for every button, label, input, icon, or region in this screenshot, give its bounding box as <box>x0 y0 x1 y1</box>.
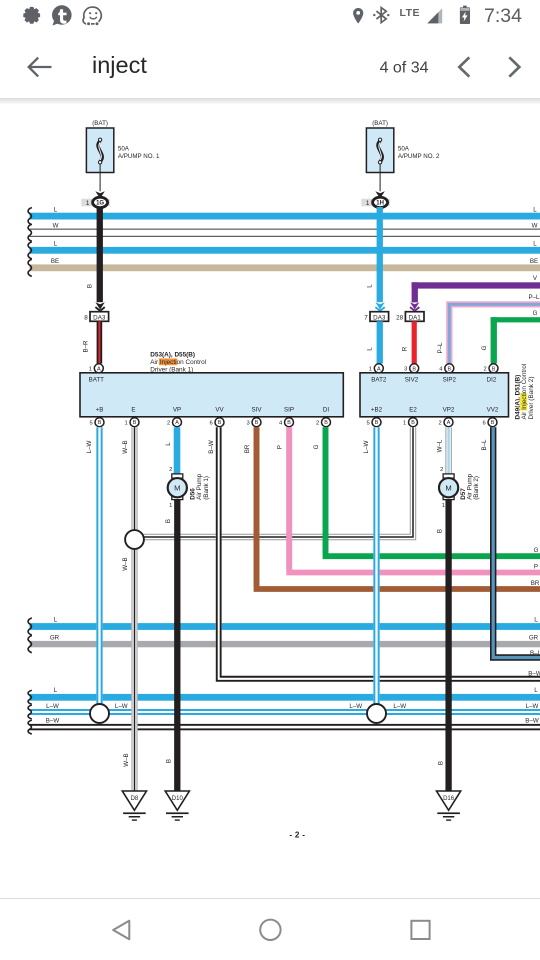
svg-text:G: G <box>533 310 538 317</box>
wire V horizontal <box>412 282 540 288</box>
svg-text:BAT2: BAT2 <box>371 376 387 383</box>
svg-text:L: L <box>534 617 538 624</box>
svg-text:L–W: L–W <box>46 703 59 710</box>
svg-text:B: B <box>491 420 495 426</box>
svg-text:B–L: B–L <box>481 439 488 451</box>
pin 6 B VV2 <box>488 418 497 427</box>
ground D16 <box>437 791 461 810</box>
signal triangle icon <box>427 8 442 23</box>
svg-text:B–W: B–W <box>528 671 540 678</box>
LTE label <box>400 7 421 19</box>
bus wire W <box>30 229 540 230</box>
svg-text:L: L <box>165 442 172 446</box>
wire L-W from +B2 to junction <box>373 427 379 707</box>
svg-text:B–L: B–L <box>530 650 540 657</box>
wire W-B from E2 elbow to junction <box>134 427 413 537</box>
svg-text:D8: D8 <box>131 796 139 802</box>
svg-text:G: G <box>481 345 488 350</box>
svg-text:L: L <box>367 347 374 351</box>
svg-text:W: W <box>53 223 59 230</box>
connector 1G pin 1 <box>81 199 110 207</box>
svg-text:B: B <box>218 420 222 426</box>
wire B-L elbow from VV2 to right <box>493 427 540 657</box>
brace bus B-W <box>28 720 32 734</box>
wire P vertical from SIP <box>286 427 292 569</box>
svg-text:- 2 -: - 2 - <box>289 830 305 839</box>
svg-text:1: 1 <box>369 366 372 372</box>
svg-text:A/PUMP NO. 1: A/PUMP NO. 1 <box>118 153 160 160</box>
nav recents square <box>411 921 429 939</box>
nav bar separator <box>0 898 540 899</box>
svg-text:A: A <box>97 366 101 372</box>
toolbar shadow <box>0 98 540 105</box>
connector DA3 pin 7 <box>370 312 389 322</box>
clock 7:34 <box>484 5 522 27</box>
svg-text:L: L <box>534 687 538 694</box>
bluetooth icon <box>373 8 389 23</box>
wire R from DA1 to SIV2 <box>412 321 417 363</box>
wire L from DA3-7 to BAT2 pin <box>377 321 383 363</box>
svg-text:V: V <box>533 275 538 282</box>
pin 2 B DI <box>322 418 331 427</box>
svg-text:W: W <box>532 223 538 230</box>
svg-text:P: P <box>534 563 538 570</box>
svg-text:BE: BE <box>530 258 538 265</box>
svg-text:D53(A), D55(B): D53(A), D55(B) <box>150 352 195 359</box>
svg-text:M: M <box>174 484 180 493</box>
svg-text:B: B <box>98 420 102 426</box>
svg-text:B: B <box>438 761 445 765</box>
pin 1 A BATT <box>94 364 103 373</box>
wire G from right to DI2 <box>491 317 540 322</box>
wire BR elbow from SIV to right <box>257 427 540 589</box>
gear notification icon <box>23 7 40 24</box>
svg-text:A: A <box>377 366 381 372</box>
svg-text:VP: VP <box>173 407 181 414</box>
svg-text:B–W: B–W <box>525 718 539 725</box>
svg-text:B: B <box>411 420 415 426</box>
svg-text:3: 3 <box>246 420 249 426</box>
svg-text:2: 2 <box>483 366 486 372</box>
brace bus GR <box>28 636 32 653</box>
junction node L-W left <box>90 704 109 723</box>
svg-text:D16: D16 <box>443 796 455 802</box>
svg-text:1: 1 <box>442 503 445 509</box>
wire L-W from +B to junction <box>96 427 102 707</box>
svg-text:L–W: L–W <box>349 703 362 710</box>
svg-text:B–W: B–W <box>46 718 60 725</box>
svg-text:SIP2: SIP2 <box>443 376 457 383</box>
svg-text:L–W: L–W <box>86 440 93 453</box>
wire BR vertical from SIV <box>254 427 260 586</box>
svg-text:P–L: P–L <box>528 294 540 301</box>
app toolbar <box>0 33 540 98</box>
pin 1 B E2 <box>409 418 418 427</box>
battery charging icon <box>460 6 470 24</box>
svg-text:B: B <box>324 420 328 426</box>
svg-text:VP2: VP2 <box>443 407 455 414</box>
wire G elbow from DI to right <box>326 427 540 556</box>
svg-text:2: 2 <box>316 420 319 426</box>
wire P-L from right to SIP2 <box>449 304 540 363</box>
fuse (BAT) 50A A/PUMP NO.1 <box>86 128 113 173</box>
svg-text:L–W: L–W <box>393 703 406 710</box>
wire B from motor D57 to ground D16 <box>445 500 451 791</box>
svg-text:L–W: L–W <box>363 440 370 453</box>
svg-text:M: M <box>445 484 451 493</box>
pin 4 B SIP <box>285 418 294 427</box>
bus wire L top <box>30 213 540 220</box>
pin 1 A BAT2 <box>374 364 383 373</box>
pin 6 B VV <box>215 418 224 427</box>
svg-text:8: 8 <box>84 315 88 322</box>
junction node W-B <box>125 530 144 549</box>
svg-text:L: L <box>54 207 58 214</box>
svg-text:6: 6 <box>209 420 212 426</box>
svg-text:GR: GR <box>50 634 60 641</box>
nav bar <box>0 899 540 960</box>
brace bus L-W <box>28 705 32 719</box>
svg-text:1: 1 <box>89 366 92 372</box>
wire G vertical from DI <box>323 427 329 553</box>
svg-text:BR: BR <box>244 444 251 453</box>
nav home circle <box>260 920 280 940</box>
pin 2 A VP <box>173 418 182 427</box>
svg-text:4: 4 <box>279 420 283 426</box>
air pump motor D56 <box>172 474 183 478</box>
svg-text:5: 5 <box>366 420 369 426</box>
svg-text:B: B <box>165 519 172 523</box>
svg-text:B: B <box>255 420 259 426</box>
svg-text:L: L <box>367 284 374 288</box>
wire W-L from VP2 to motor D57 <box>445 427 451 474</box>
brace bus L3 <box>28 618 32 635</box>
brace bus L2 <box>28 242 32 259</box>
bus wire GR <box>30 641 540 647</box>
svg-text:(Bank 2): (Bank 2) <box>473 476 480 500</box>
pin 4 B SIP2 <box>445 364 454 373</box>
svg-text:SIV2: SIV2 <box>405 376 419 383</box>
svg-text:W–B: W–B <box>122 440 129 453</box>
double arrow into DA3 pin 7 <box>375 302 384 309</box>
IC driver module D49/D51 box <box>360 373 509 417</box>
svg-text:L: L <box>54 241 58 248</box>
svg-text:B: B <box>87 284 94 288</box>
svg-text:5: 5 <box>89 420 92 426</box>
brace bus W <box>28 224 32 241</box>
svg-text:R: R <box>402 346 409 351</box>
wire L from VP to motor D56 <box>174 427 181 474</box>
svg-text:E: E <box>131 407 135 414</box>
svg-text:1: 1 <box>403 420 406 426</box>
pin 3 B SIV2 <box>410 364 419 373</box>
nav back triangle <box>113 921 129 940</box>
arrow into connector 1G <box>95 191 104 198</box>
svg-text:28: 28 <box>396 315 404 322</box>
svg-text:B: B <box>133 420 137 426</box>
svg-text:(BAT): (BAT) <box>372 120 388 127</box>
svg-text:2: 2 <box>169 467 172 473</box>
svg-text:W–L: W–L <box>436 439 443 452</box>
svg-text:SIV: SIV <box>252 407 263 414</box>
waze notification icon <box>83 7 101 26</box>
svg-text:Air Injection Control: Air Injection Control <box>150 359 206 366</box>
svg-text:(BAT): (BAT) <box>92 120 108 127</box>
bus wire B-W <box>30 724 540 726</box>
page counter 4 of 34 <box>380 59 429 76</box>
svg-text:DA3: DA3 <box>93 314 106 321</box>
tumblr notification icon <box>52 5 72 25</box>
svg-text:L: L <box>54 617 58 624</box>
svg-text:B: B <box>436 529 443 533</box>
brace bus L <box>28 208 32 225</box>
svg-text:VV2: VV2 <box>487 407 499 414</box>
wire B from 1G to DA3 <box>97 207 103 302</box>
svg-text:2: 2 <box>167 420 170 426</box>
svg-text:Driver (Bank 2): Driver (Bank 2) <box>528 377 535 420</box>
svg-text:6: 6 <box>482 420 485 426</box>
pin 2 A VP2 <box>444 418 453 427</box>
status bar <box>0 0 540 33</box>
svg-text:B–R: B–R <box>83 340 90 353</box>
svg-text:BE: BE <box>51 258 59 265</box>
fuse (BAT) 50A A/PUMP NO.2 <box>366 128 393 173</box>
pin 3 B SIV <box>252 418 261 427</box>
svg-text:DI: DI <box>323 407 329 414</box>
svg-text:+B2: +B2 <box>371 407 383 414</box>
svg-text:BATT: BATT <box>89 376 105 383</box>
ground D10 <box>165 791 189 810</box>
svg-text:L–W: L–W <box>115 703 128 710</box>
wire L from 1H to DA3-7 <box>377 207 383 302</box>
pin 1 B E <box>130 418 139 427</box>
svg-text:L: L <box>54 687 58 694</box>
svg-text:1G: 1G <box>96 201 104 207</box>
svg-text:G: G <box>534 547 539 554</box>
svg-text:BR: BR <box>531 580 540 587</box>
svg-text:B: B <box>287 420 291 426</box>
svg-text:L–W: L–W <box>526 703 539 710</box>
bus wire L-W <box>30 709 540 711</box>
svg-text:B: B <box>447 366 451 372</box>
connector DA3 pin 8 <box>90 312 109 322</box>
ground D8 <box>122 791 146 810</box>
svg-text:2: 2 <box>440 467 443 473</box>
svg-text:2: 2 <box>438 420 441 426</box>
svg-text:DA1: DA1 <box>409 314 422 321</box>
wire P elbow from SIP to right <box>289 427 540 572</box>
location pin icon <box>353 8 363 24</box>
next chevron <box>509 57 519 76</box>
brace bus BE <box>28 259 32 276</box>
svg-text:B: B <box>412 366 416 372</box>
connector DA1 pin 28 <box>405 312 424 322</box>
svg-text:L: L <box>533 241 537 248</box>
svg-text:B: B <box>166 759 173 763</box>
air pump motor D57 <box>443 474 454 478</box>
bus wire L fourth <box>30 694 540 701</box>
pin 2 B DI2 <box>489 364 498 373</box>
brace bus L4 <box>28 690 32 704</box>
double arrow into DA1 pin 28 <box>410 302 419 309</box>
svg-text:GR: GR <box>529 634 539 641</box>
svg-text:SIP: SIP <box>284 407 294 414</box>
pin 5 B +B <box>95 418 104 427</box>
svg-text:1: 1 <box>124 420 127 426</box>
svg-text:DA3: DA3 <box>373 314 386 321</box>
svg-text:DI2: DI2 <box>487 376 497 383</box>
svg-text:W–B: W–B <box>123 753 130 766</box>
prev chevron <box>459 57 469 76</box>
svg-text:+B: +B <box>96 407 104 414</box>
svg-text:A/PUMP NO. 2: A/PUMP NO. 2 <box>398 153 440 160</box>
wire B from motor D56 to ground D10 <box>174 500 180 791</box>
wire B-R from DA3 to BATT pin <box>97 321 103 363</box>
svg-text:1: 1 <box>86 200 90 207</box>
svg-text:L: L <box>533 207 537 214</box>
svg-text:(Bank 1): (Bank 1) <box>203 476 210 500</box>
svg-text:VV: VV <box>215 407 224 414</box>
svg-text:G: G <box>313 444 320 449</box>
svg-text:3: 3 <box>404 366 407 372</box>
pin 5 B +B2 <box>372 418 381 427</box>
arrow into connector 1H <box>375 191 384 198</box>
wire W-B from E to ground D8 <box>131 427 137 791</box>
svg-text:W–B: W–B <box>122 557 129 570</box>
svg-text:P: P <box>277 445 284 449</box>
wire B-W elbow from VV to right <box>219 427 540 679</box>
svg-text:A: A <box>175 420 179 426</box>
bus wire L third <box>30 623 540 630</box>
svg-text:4: 4 <box>439 366 443 372</box>
svg-text:E2: E2 <box>409 407 417 414</box>
svg-text:A: A <box>447 420 451 426</box>
svg-text:B–W: B–W <box>208 440 215 454</box>
bus wire L second <box>30 247 540 254</box>
double arrow into DA3 pin 8 <box>95 302 104 309</box>
svg-text:B: B <box>492 366 496 372</box>
svg-text:D10: D10 <box>172 796 184 802</box>
IC driver module D53/D55 box <box>80 373 343 417</box>
svg-text:1: 1 <box>366 200 370 207</box>
back arrow <box>29 58 52 77</box>
connector 1H pin 1 <box>361 199 390 207</box>
title inject <box>92 52 147 78</box>
svg-text:50A: 50A <box>398 146 410 153</box>
svg-text:7: 7 <box>364 315 368 322</box>
svg-text:B: B <box>375 420 379 426</box>
svg-text:1H: 1H <box>376 201 384 207</box>
junction node L-W right <box>367 704 386 723</box>
svg-text:P–L: P–L <box>437 342 444 354</box>
bus wire BE <box>30 264 540 271</box>
svg-text:50A: 50A <box>118 146 130 153</box>
svg-text:1: 1 <box>169 503 172 509</box>
